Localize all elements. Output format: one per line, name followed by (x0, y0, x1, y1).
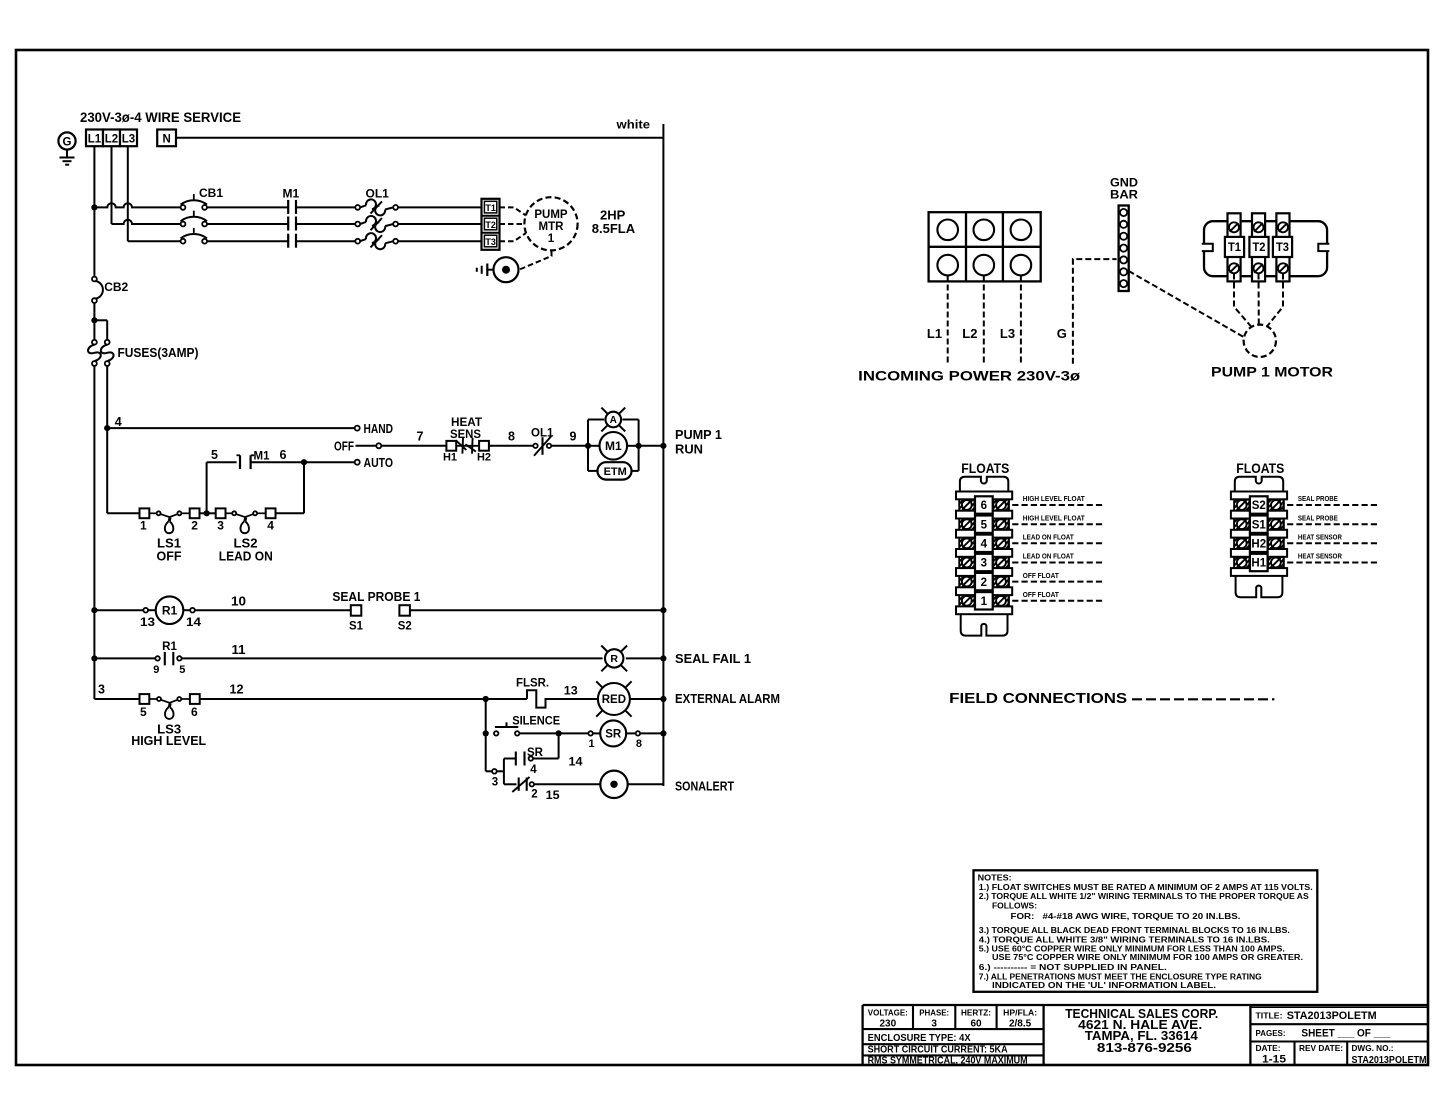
wire dashed gnd bar to motor (1129, 271, 1245, 337)
title block divider mid-right (1249, 1005, 1251, 1065)
flasher FLSR contact (527, 690, 598, 707)
wire alarm node drop (485, 699, 487, 771)
title row second top line (1250, 1006, 1428, 1008)
incoming power terminal block (929, 212, 1041, 281)
svg-text:1-15: 1-15 (1262, 1054, 1286, 1066)
dashed field wire 3 (1012, 562, 1105, 564)
svg-text:12: 12 (230, 683, 244, 697)
svg-text:SONALERT: SONALERT (675, 779, 734, 793)
svg-text:8.5FLA: 8.5FLA (592, 221, 636, 236)
svg-text:HERTZ:: HERTZ: (961, 1007, 991, 1017)
terminal number box 3 (975, 554, 993, 571)
overload OL1 pole 1 (355, 205, 360, 210)
coil M1 (600, 432, 628, 460)
wire phase 2 M1 to OL1 (296, 223, 355, 225)
wire fuse branch top (94, 319, 107, 321)
terminal number box 5 (975, 516, 993, 533)
svg-text:H1: H1 (1251, 558, 1266, 570)
wire terminal4 to node6 riser (276, 512, 305, 514)
wire to flasher (486, 698, 527, 700)
wire dashed L2 lead (983, 276, 985, 364)
ground terminal G (58, 132, 75, 149)
wire coil branch left riser (587, 420, 589, 471)
strip top tab (1235, 477, 1283, 492)
terminal 6 (190, 694, 200, 704)
circuit breaker CB1 pole 2 (181, 222, 186, 227)
strip bottom tab (1236, 576, 1283, 597)
motor screw bottom 2 (1254, 263, 1264, 273)
contact M1 auxiliary (239, 455, 241, 469)
ground bar lug 3 (1120, 233, 1127, 240)
svg-text:T1: T1 (485, 203, 496, 213)
terminal T3 (484, 235, 496, 247)
terminal T2 (484, 218, 496, 230)
wire left rail lower (93, 366, 95, 699)
terminal row H1 (1234, 557, 1249, 568)
terminal row 4 (959, 538, 974, 549)
svg-text:8: 8 (636, 738, 642, 750)
relay coil SR (600, 720, 626, 746)
motor screw top 1 (1229, 222, 1239, 232)
wire H2 to OL1 contact (489, 445, 533, 447)
wire SR contact to riser 14 (533, 758, 559, 760)
wire node6 drop (303, 462, 305, 513)
node rail R1 rung (91, 607, 97, 613)
svg-text:6: 6 (280, 448, 287, 462)
contact point 1 (588, 731, 592, 735)
svg-text:FOLLOWS:: FOLLOWS: (992, 901, 1037, 910)
svg-text:1.) FLOAT SWITCHES MUST BE RAT: 1.) FLOAT SWITCHES MUST BE RATED A MINIM… (979, 883, 1313, 892)
wire L3 drop (127, 146, 129, 241)
svg-text:OL1: OL1 (531, 427, 554, 439)
svg-text:LEAD ON: LEAD ON (219, 550, 273, 564)
svg-text:A: A (610, 415, 617, 426)
wire dashed T2 to motor (500, 223, 525, 225)
wire S2 to rail (410, 609, 663, 611)
ground bar (1119, 206, 1129, 292)
wire to SR coil (559, 732, 589, 734)
terminal number box H2 (1250, 535, 1268, 552)
contactor M1 pole 3 (287, 234, 289, 248)
circuit breaker CB1 pole 3 (181, 239, 186, 244)
svg-text:USE 75°C COPPER WIRE ONLY MINI: USE 75°C COPPER WIRE ONLY MINIMUM FOR 10… (992, 953, 1303, 962)
svg-text:6: 6 (981, 500, 987, 512)
svg-text:3: 3 (492, 777, 498, 789)
svg-text:1: 1 (548, 233, 555, 245)
wire branch top right (622, 419, 638, 421)
svg-text:813-876-9256: 813-876-9256 (1097, 1040, 1192, 1055)
svg-text:13: 13 (140, 615, 155, 629)
node L1 phase junction (91, 204, 97, 210)
dashed field wire 1 (1012, 600, 1105, 602)
contact point 8 (636, 731, 640, 735)
svg-text:PUMP 1 MOTOR: PUMP 1 MOTOR (1211, 364, 1333, 380)
svg-text:SENS: SENS (450, 427, 481, 441)
wire L1 drop (93, 146, 95, 207)
svg-text:60: 60 (970, 1018, 982, 1029)
wire branch bottom right (632, 470, 638, 472)
svg-text:7: 7 (417, 430, 424, 444)
ratings col dividers (912, 1005, 914, 1029)
svg-text:15: 15 (546, 788, 560, 802)
node fuse split (91, 317, 97, 323)
strip top tab (960, 477, 1008, 492)
svg-text:HP/FLA:: HP/FLA: (1003, 1007, 1037, 1017)
svg-text:SHEET ___ OF ___: SHEET ___ OF ___ (1301, 1028, 1391, 1040)
dashed field wire S1 (1287, 523, 1379, 525)
svg-text:FUSES(3AMP): FUSES(3AMP) (118, 346, 199, 360)
terminal H2 (479, 441, 489, 451)
motor screw bottom 1 (1229, 263, 1239, 273)
wire phase 1 CB1 to M1 (207, 206, 288, 208)
terminal number box 2 (975, 573, 993, 590)
svg-text:MTR: MTR (539, 221, 565, 233)
svg-text:OFF FLOAT: OFF FLOAT (1023, 590, 1060, 599)
wire SR to rail (640, 732, 663, 734)
motor frame ground symbol (486, 264, 488, 277)
ground bar lug 4 (1120, 245, 1127, 252)
motor screw top 2 (1254, 222, 1264, 232)
svg-text:3: 3 (981, 558, 987, 570)
terminal L1 (86, 130, 103, 147)
title block outer (863, 1004, 1428, 1006)
wire phase line 2 with hop (112, 220, 181, 224)
contact HAND (355, 426, 360, 431)
wire bus to SR contact (504, 758, 516, 760)
motor ground lug circle (494, 257, 519, 282)
wire phase 3 M1 to OL1 (296, 240, 355, 242)
node rail seal fail (660, 655, 666, 661)
ground bar lug 5 (1120, 256, 1127, 263)
wire phase 1 OL1 to T1 (398, 206, 482, 208)
overload OL1 pole 3 (355, 239, 360, 244)
contactor M1 pole 1 (287, 200, 289, 214)
svg-text:INDICATED ON THE 'UL' INFORMAT: INDICATED ON THE 'UL' INFORMATION LABEL. (992, 981, 1216, 990)
wire dashed T1 to motor (500, 207, 527, 215)
svg-text:R: R (610, 653, 618, 665)
ratings table row3 bottom (863, 1054, 1044, 1056)
strip bottom tab (961, 614, 1008, 635)
svg-text:3: 3 (98, 683, 105, 697)
limit switch LS2 (232, 511, 236, 515)
terminal number box 6 (975, 496, 993, 513)
wire R1 to S1 (195, 609, 351, 611)
svg-text:230V-3ø-4 WIRE SERVICE: 230V-3ø-4 WIRE SERVICE (80, 110, 241, 125)
svg-text:S2: S2 (1252, 500, 1266, 512)
svg-text:PHASE:: PHASE: (919, 1007, 949, 1017)
strip body (959, 495, 1009, 610)
svg-text:OFF FLOAT: OFF FLOAT (1023, 571, 1060, 580)
svg-text:L1: L1 (88, 134, 102, 146)
svg-text:HIGH LEVEL FLOAT: HIGH LEVEL FLOAT (1023, 513, 1086, 522)
circuit breaker CB2 (92, 277, 97, 282)
svg-text:H1: H1 (443, 451, 457, 463)
wire control branch to node 4 (106, 366, 108, 428)
svg-text:L3: L3 (1000, 326, 1015, 341)
wire R pilot to rail (626, 657, 664, 659)
wire phase line 1 with hops (94, 203, 180, 207)
svg-text:HIGH LEVEL FLOAT: HIGH LEVEL FLOAT (1023, 494, 1086, 503)
strip separator bars (1231, 492, 1287, 500)
terminal N (157, 130, 176, 147)
wire dashed ground lead (1073, 259, 1117, 364)
svg-text:5: 5 (981, 519, 988, 531)
sonalert horn (600, 771, 627, 798)
heat sensor contacts (456, 445, 479, 447)
svg-text:3.) TORQUE ALL BLACK DEAD FRON: 3.) TORQUE ALL BLACK DEAD FRONT TERMINAL… (979, 926, 1290, 935)
node alarm branch (483, 696, 489, 702)
svg-text:INCOMING POWER 230V-3ø: INCOMING POWER 230V-3ø (858, 368, 1081, 384)
lug L3 top (1011, 220, 1032, 241)
svg-text:SEAL PROBE: SEAL PROBE (1298, 494, 1338, 503)
svg-text:VOLTAGE:: VOLTAGE: (868, 1007, 908, 1017)
node 6 (301, 459, 307, 465)
svg-text:STA2013POLETM: STA2013POLETM (1352, 1054, 1427, 1066)
node 4 (104, 425, 110, 431)
svg-text:1: 1 (140, 519, 147, 533)
contactor M1 pole 2 (287, 217, 289, 231)
terminal 3 (216, 508, 226, 518)
circuit breaker CB1 pole 1 (181, 205, 186, 210)
svg-text:13: 13 (564, 683, 578, 697)
svg-text:SR: SR (605, 729, 622, 741)
svg-text:3: 3 (217, 519, 224, 533)
svg-text:DWG. NO.:: DWG. NO.: (1352, 1043, 1394, 1053)
svg-text:T1: T1 (1228, 242, 1242, 254)
lug L2 bottom (974, 255, 995, 276)
svg-text:SEAL PROBE 1: SEAL PROBE 1 (332, 590, 420, 604)
overload OL1 pole 2 (355, 222, 360, 227)
svg-text:R1: R1 (162, 641, 177, 653)
wire rail to R1 coil (94, 609, 143, 611)
wire bus to SR NC contact (504, 783, 517, 785)
motor PUMP MTR 1 (524, 197, 577, 250)
svg-text:8: 8 (508, 430, 515, 444)
wire OFF to H1 (381, 445, 446, 447)
terminal 2 (190, 508, 200, 518)
svg-text:M1: M1 (605, 439, 622, 453)
contact R1 normally open (155, 656, 159, 660)
wire sonalert to rail (627, 783, 664, 785)
terminal row H2 (1234, 538, 1249, 549)
terminal row 3 (959, 557, 974, 568)
wire dashed motor to ground lug (520, 251, 552, 270)
svg-text:S1: S1 (1252, 519, 1267, 531)
lug L1 top (937, 220, 958, 241)
wire dashed L1 lead (947, 276, 949, 364)
contact point 14 (190, 608, 195, 613)
dashed field wire H2 (1287, 542, 1379, 544)
motor terminal strip T1 (1228, 213, 1241, 281)
wire left rail upper (93, 207, 95, 276)
pilot light R (621, 665, 627, 671)
svg-text:STA2013POLETM: STA2013POLETM (1287, 1010, 1377, 1022)
dashed field wire 5 (1012, 523, 1105, 525)
wire phase 2 CB1 to M1 (207, 223, 288, 225)
ground bar lug 2 (1120, 221, 1127, 228)
wire dashed motor lead T1 (1234, 274, 1252, 328)
terminal 1 (140, 508, 150, 518)
svg-text:LS2: LS2 (234, 537, 258, 551)
node silence rung (483, 730, 489, 736)
wire coil to rail (639, 445, 664, 447)
terminal number box S2 (1250, 496, 1268, 513)
pilot light RED (626, 711, 632, 717)
wire NC contact to sonalert (534, 783, 601, 785)
svg-text:NOTES:: NOTES: (978, 874, 1012, 883)
title block divider mid-left (1042, 1005, 1044, 1065)
wire phase 3 OL1 to T3 (398, 240, 482, 242)
svg-text:RUN: RUN (675, 443, 703, 457)
svg-text:M1: M1 (254, 451, 271, 463)
terminal number box S1 (1250, 516, 1268, 533)
dashed field wire H1 (1287, 562, 1379, 564)
svg-text:5: 5 (211, 448, 218, 462)
svg-text:DATE:: DATE: (1256, 1043, 1281, 1053)
wire phase 2 OL1 to T2 (398, 223, 482, 225)
svg-text:5: 5 (140, 705, 147, 719)
wire branch bottom left (588, 470, 598, 472)
motor block left notch (1202, 244, 1213, 251)
node rail external alarm (660, 696, 666, 702)
contact point 13 (143, 608, 148, 613)
wire M1 aux to node 6 (251, 461, 304, 463)
svg-text:R1: R1 (162, 604, 178, 618)
strip body (1234, 495, 1284, 572)
motor screw top 3 (1278, 222, 1288, 232)
ground symbol (66, 150, 68, 157)
notes box (974, 870, 1318, 992)
svg-text:G: G (1057, 326, 1067, 341)
motor screw bottom 3 (1278, 263, 1288, 273)
wire neutral rail (176, 137, 663, 139)
svg-text:PAGES:: PAGES: (1256, 1028, 1286, 1038)
wire rail to R1 contact (94, 657, 155, 659)
svg-text:REV DATE:: REV DATE: (1299, 1043, 1343, 1053)
svg-text:T3: T3 (485, 237, 496, 247)
svg-text:BAR: BAR (1110, 188, 1138, 202)
ratings table row2 bottom (863, 1043, 1044, 1045)
svg-text:6.) ---------- = NOT SUPPLIED: 6.) ---------- = NOT SUPPLIED IN PANEL. (979, 963, 1167, 972)
terminal 4 (266, 508, 276, 518)
wire node4 down (106, 428, 108, 513)
svg-text:FLOATS: FLOATS (1236, 461, 1284, 476)
svg-text:9: 9 (153, 664, 159, 676)
lug L1 bottom (937, 255, 958, 276)
svg-text:T3: T3 (1276, 242, 1289, 254)
contact AUTO (355, 460, 360, 465)
svg-text:FOR: #4-#18 AWG WIRE, TORQUE: FOR: #4-#18 AWG WIRE, TORQUE TO 20 IN.LB… (1011, 912, 1241, 921)
wire coil branch right riser (638, 420, 640, 471)
wire phase 3 CB1 to M1 (207, 240, 288, 242)
svg-text:FLSR.: FLSR. (516, 675, 549, 689)
motor terminal strip T2 (1252, 213, 1265, 281)
svg-text:2: 2 (981, 577, 987, 589)
wire dashed L3 lead (1020, 276, 1022, 364)
svg-text:FIELD CONNECTIONS: FIELD CONNECTIONS (949, 690, 1127, 707)
svg-text:S1: S1 (349, 621, 364, 633)
limit switch LS3 (157, 697, 161, 701)
svg-text:4: 4 (267, 519, 274, 533)
node terminal 2 junction (204, 510, 210, 516)
fuse F2 (105, 340, 110, 345)
svg-text:4.) TORQUE ALL WHITE 3/8" WIRI: 4.) TORQUE ALL WHITE 3/8" WIRING TERMINA… (979, 935, 1270, 944)
svg-text:L1: L1 (927, 326, 942, 341)
limit switch LS1 (157, 511, 161, 515)
node rail silence (660, 730, 666, 736)
wire branch bus (503, 759, 505, 785)
svg-text:SHORT CIRCUIT CURRENT: 5KA: SHORT CIRCUIT CURRENT: 5KA (868, 1045, 1008, 1056)
wire pushbutton to node (519, 732, 558, 734)
terminal row 1 (959, 595, 974, 606)
node rail R1 contact rung (91, 655, 97, 661)
node rail PUMP1 RUN (660, 443, 666, 449)
wire rail to terminal 5 (94, 698, 139, 700)
svg-text:HAND: HAND (364, 422, 394, 436)
svg-text:1: 1 (981, 596, 988, 608)
svg-text:4: 4 (530, 764, 537, 776)
ground bar lug 1 (1120, 209, 1127, 216)
svg-text:SEAL FAIL 1: SEAL FAIL 1 (675, 652, 751, 666)
date cells dividers (1293, 1042, 1295, 1066)
svg-text:2/8.5: 2/8.5 (1009, 1018, 1032, 1029)
svg-text:SEAL PROBE: SEAL PROBE (1298, 513, 1338, 522)
svg-text:RMS SYMMETRICAL, 240V MAXIMUM: RMS SYMMETRICAL, 240V MAXIMUM (868, 1056, 1028, 1067)
terminal number box 4 (975, 535, 993, 552)
svg-text:LEAD ON FLOAT: LEAD ON FLOAT (1023, 533, 1075, 542)
svg-text:LEAD ON FLOAT: LEAD ON FLOAT (1023, 552, 1075, 561)
ratings table row1 bottom (863, 1028, 1044, 1030)
svg-text:OFF: OFF (157, 550, 182, 564)
wire dashed motor lead T2 (1258, 274, 1260, 325)
terminal row S1 (1234, 519, 1249, 530)
terminal S2 (399, 605, 410, 616)
wire LS3 to alarm node (200, 698, 486, 700)
field connections dashed line (1132, 698, 1274, 700)
svg-text:S2: S2 (398, 621, 412, 633)
wire dashed motor lead T3 (1267, 274, 1284, 328)
ground bar lug 7 (1120, 280, 1127, 287)
terminal row 5 (959, 519, 974, 530)
wire OFF stub (356, 445, 377, 447)
svg-text:G: G (63, 136, 72, 148)
svg-text:2.) TORQUE ALL WHITE 1/2" WIRI: 2.) TORQUE ALL WHITE 1/2" WIRING TERMINA… (979, 892, 1310, 901)
wire phase 1 M1 to OL1 (296, 206, 355, 208)
strip separator bars (956, 492, 1012, 500)
pump 1 motor circle (1244, 325, 1276, 357)
svg-text:FLOATS: FLOATS (961, 461, 1009, 476)
svg-text:LS1: LS1 (157, 537, 181, 551)
contact SR normally closed (518, 778, 520, 791)
wire branch top left (588, 419, 604, 421)
dashed field wire 2 (1012, 581, 1105, 583)
svg-text:TITLE:: TITLE: (1256, 1010, 1283, 1020)
dashed field wire 4 (1012, 542, 1105, 544)
svg-text:EXTERNAL ALARM: EXTERNAL ALARM (675, 692, 780, 706)
svg-text:6: 6 (191, 705, 198, 719)
contact SR normally open (515, 752, 517, 766)
wire RED to rail (630, 698, 664, 700)
svg-text:PUMP 1: PUMP 1 (675, 428, 722, 442)
lug L2 top (974, 220, 995, 241)
wire drop to contact 3 (486, 770, 492, 772)
svg-text:1: 1 (588, 738, 594, 750)
terminal L2 (103, 130, 120, 147)
svg-text:4: 4 (981, 539, 988, 551)
svg-text:14: 14 (569, 754, 583, 768)
wire R1 contact to R pilot (182, 657, 603, 659)
terminal 5 (140, 694, 150, 704)
